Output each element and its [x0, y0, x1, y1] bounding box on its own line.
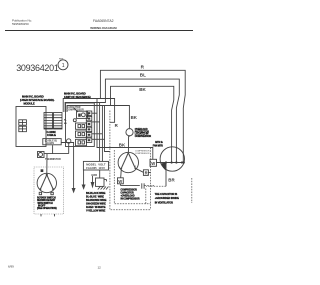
svg-text:MODULE: MODULE — [24, 101, 35, 105]
svg-text:6/99: 6/99 — [8, 264, 14, 268]
svg-text:BK: BK — [139, 87, 146, 92]
svg-text:(USER INTERFACE BOARD)-: (USER INTERFACE BOARD)- — [20, 98, 55, 102]
svg-text:5995380250: 5995380250 — [12, 22, 29, 26]
svg-text:THE CAPACITOR IS: THE CAPACITOR IS — [155, 193, 178, 196]
svg-text:12: 12 — [98, 265, 102, 269]
svg-text:(SEE OPERATION): (SEE OPERATION) — [37, 207, 57, 210]
svg-text:MAIN P.C. BOARD: MAIN P.C. BOARD — [64, 92, 86, 96]
svg-text:FAA065 115V: FAA065 115V — [86, 166, 105, 170]
svg-text:BR: BR — [168, 178, 175, 183]
svg-text:LEADS: LEADS — [46, 142, 55, 145]
svg-text:FAN MTR: FAN MTR — [153, 144, 163, 147]
svg-text:CAPACITOR: CAPACITOR — [121, 192, 134, 195]
svg-text:MAIN P.C. BOARD: MAIN P.C. BOARD — [22, 95, 44, 99]
svg-text:BK: BK — [64, 123, 68, 125]
svg-text:WIRING DIAGRAM: WIRING DIAGRAM — [90, 26, 117, 30]
svg-text:Y-YELLOW WIRE: Y-YELLOW WIRE — [86, 210, 106, 213]
svg-text:COMPRESSOR: COMPRESSOR — [135, 153, 150, 155]
svg-text:COMPRESSOR: COMPRESSOR — [121, 190, 138, 192]
svg-text:+OVERLOAD: +OVERLOAD — [121, 195, 135, 198]
svg-text:W: W — [151, 161, 155, 166]
svg-text:R: R — [145, 171, 148, 176]
svg-text:BL: BL — [64, 120, 68, 122]
svg-text:309364201: 309364201 — [16, 63, 59, 73]
svg-text:1: 1 — [62, 63, 65, 69]
svg-text:COMPRESSOR: COMPRESSOR — [135, 136, 152, 138]
svg-text:FAA065N7A2: FAA065N7A2 — [93, 19, 114, 23]
svg-text:W: W — [118, 179, 122, 184]
svg-text:THERMISTOR: THERMISTOR — [45, 158, 61, 161]
svg-text:R: R — [141, 64, 145, 69]
svg-text:R: R — [115, 123, 119, 128]
svg-text:MODEL VOLT: MODEL VOLT — [86, 162, 106, 166]
svg-text:CABLE: CABLE — [47, 133, 56, 137]
svg-text:BL: BL — [140, 72, 146, 77]
svg-text:+GROUNDED INSIDE: +GROUNDED INSIDE — [155, 197, 180, 200]
svg-text:IN VENTILATOR: IN VENTILATOR — [155, 201, 173, 204]
svg-text:IN COMPRESSOR: IN COMPRESSOR — [121, 199, 140, 201]
svg-text:BK: BK — [131, 115, 138, 120]
svg-text:MTR B.: MTR B. — [155, 142, 163, 144]
svg-text:ROTARY SWITCH: ROTARY SWITCH — [37, 197, 56, 200]
svg-text:BK: BK — [119, 142, 126, 147]
